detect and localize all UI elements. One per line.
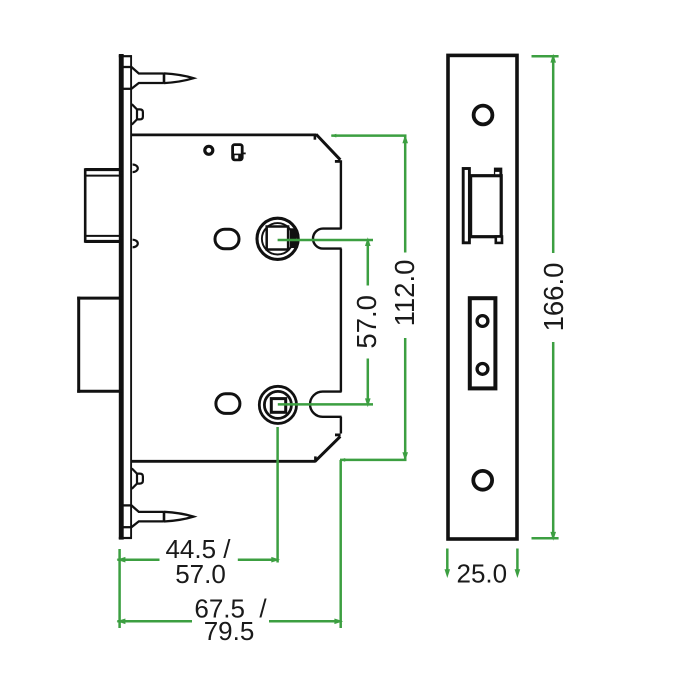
upper oval hole — [215, 229, 239, 249]
bottom fixing screw — [124, 505, 194, 527]
deadbolt (side) — [77, 297, 123, 393]
lower oval hole — [216, 394, 240, 414]
front latch opening — [463, 168, 502, 243]
dimension 166.0 — [532, 54, 559, 541]
rivet — [205, 146, 213, 154]
top lug bump — [132, 104, 143, 124]
dimension 25.0 — [445, 549, 521, 579]
front bottom hole — [473, 471, 492, 490]
case front screw bosses — [133, 165, 138, 248]
dimension 44.5/57.0 — [117, 427, 281, 628]
front key cutout — [470, 298, 496, 388]
lower spindle follower — [259, 386, 296, 423]
svg-text:166.0: 166.0 — [538, 263, 569, 332]
front top hole — [474, 106, 493, 125]
faceplate side view (forend bar) — [119, 54, 132, 540]
svg-text:25.0: 25.0 — [456, 558, 507, 588]
dimension 67.5/79.5 — [117, 460, 344, 628]
dimension 112.0 — [331, 134, 408, 462]
top fixing screw — [124, 67, 194, 89]
dimension 57.0 — [278, 237, 373, 407]
small latch detail part — [233, 145, 246, 160]
upper spindle follower — [257, 218, 298, 259]
svg-text:57.0: 57.0 — [175, 559, 226, 589]
svg-text:112.0: 112.0 — [389, 260, 420, 327]
bottom lug bump — [132, 468, 143, 488]
lock case outline — [132, 134, 342, 461]
svg-text:57.0: 57.0 — [351, 295, 382, 349]
front faceplate rectangle — [448, 55, 517, 539]
svg-text:79.5: 79.5 — [204, 616, 255, 646]
latch bolt (side) — [85, 168, 123, 243]
